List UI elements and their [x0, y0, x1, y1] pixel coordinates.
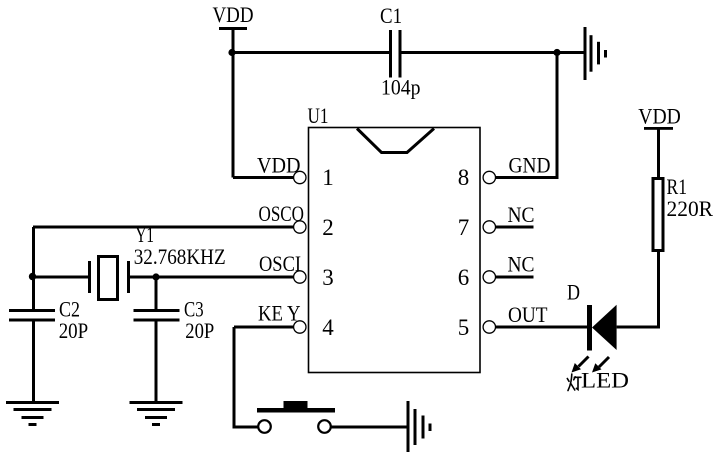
IC U1 notch	[357, 129, 434, 153]
svg-text:8: 8	[458, 165, 470, 190]
wire pin 8 to GND branch	[496, 176, 559, 179]
svg-text:20P: 20P	[59, 318, 88, 343]
pin 5 circle	[483, 321, 495, 333]
power VDD (top left)	[213, 2, 254, 30]
capacitor C1	[389, 30, 402, 78]
svg-text:OSCI: OSCI	[259, 251, 301, 276]
svg-text:220R: 220R	[667, 196, 714, 221]
svg-text:5: 5	[458, 315, 470, 340]
LED light arrow 1	[572, 357, 589, 373]
IC U1 body	[309, 128, 481, 373]
wire C1 to ground	[400, 51, 585, 54]
svg-text:KE Y: KE Y	[258, 301, 301, 326]
pin 4 circle	[294, 321, 306, 333]
wire VDD node to C1	[232, 51, 391, 54]
wire C3 top	[155, 277, 158, 309]
resistor R1	[653, 179, 663, 251]
wire VDD to R1 top	[657, 130, 660, 180]
svg-text:OSCO: OSCO	[259, 201, 305, 226]
capacitor C3	[134, 309, 180, 322]
svg-text:3: 3	[322, 265, 334, 290]
svg-text:20P: 20P	[185, 318, 214, 343]
wire GND branch vertical to pin 8	[556, 53, 559, 180]
svg-text:4: 4	[322, 315, 334, 340]
capacitor C2	[9, 309, 55, 322]
wire KEY vertical	[233, 327, 236, 427]
svg-text:OUT: OUT	[508, 302, 548, 327]
node junction GND branch	[553, 49, 560, 56]
wire C2 bottom	[32, 322, 35, 403]
label 灯 (lamp glyph)	[567, 374, 581, 391]
LED D cathode bar	[587, 305, 592, 351]
ground (top right)	[584, 27, 608, 80]
svg-text:2: 2	[322, 215, 334, 240]
svg-text:VDD: VDD	[213, 2, 254, 27]
wire VDD vertical to pin 1	[232, 29, 235, 178]
ground (bottom, right of switch)	[407, 401, 432, 452]
svg-text:NC: NC	[508, 252, 535, 277]
svg-text:NC: NC	[508, 202, 535, 227]
pin 8 circle	[483, 171, 495, 183]
svg-text:GND: GND	[509, 153, 551, 178]
svg-text:U1: U1	[308, 103, 329, 128]
svg-text:VDD: VDD	[638, 104, 681, 129]
pin 3 circle	[294, 271, 306, 283]
svg-text:D: D	[567, 280, 580, 305]
pin 1 circle	[294, 171, 306, 183]
svg-text:104p: 104p	[381, 75, 421, 100]
svg-text:32.768KHZ: 32.768KHZ	[134, 244, 226, 269]
pin 2 circle	[294, 221, 306, 233]
wire pin 5 OUT to LED	[496, 326, 589, 329]
wire pin 7 NC stub	[496, 226, 534, 229]
wire R1 bottom vertical	[657, 252, 660, 329]
svg-text:C1: C1	[380, 3, 402, 28]
svg-text:6: 6	[458, 265, 470, 290]
ground (below C2)	[6, 401, 59, 426]
switch terminal left	[258, 420, 271, 433]
switch button bar	[257, 408, 335, 413]
wire crystal left	[33, 276, 89, 279]
ground (below C3)	[130, 401, 183, 426]
svg-text:LED: LED	[581, 368, 629, 393]
node junction crystal left	[29, 273, 36, 280]
wire switch to ground	[331, 426, 408, 429]
pin 6 circle	[483, 271, 495, 283]
node junction crystal right	[152, 273, 159, 280]
switch button nub	[284, 401, 308, 409]
wire LED to R1 branch	[617, 326, 660, 329]
crystal Y1	[88, 257, 130, 300]
wire OSCO vertical	[32, 227, 35, 277]
svg-text:VDD: VDD	[257, 153, 301, 178]
wire crystal right to pin 3	[129, 276, 294, 279]
pin 7 circle	[483, 221, 495, 233]
node junction VDD/C1	[228, 49, 235, 56]
svg-text:7: 7	[458, 215, 470, 240]
svg-text:1: 1	[322, 165, 334, 190]
switch terminal right	[318, 420, 331, 433]
wire KEY to switch	[233, 426, 259, 429]
LED light arrow 2	[592, 357, 609, 373]
wire pin 4 KEY horizontal	[234, 326, 294, 329]
wire C2 top	[32, 277, 35, 309]
wire pin 1 VDD	[233, 176, 294, 179]
wire C3 bottom	[155, 322, 158, 403]
power VDD (right)	[638, 104, 681, 130]
wire pin 2 OSCO horizontal	[33, 226, 294, 229]
LED D triangle	[592, 305, 617, 350]
wire pin 6 NC stub	[496, 276, 534, 279]
